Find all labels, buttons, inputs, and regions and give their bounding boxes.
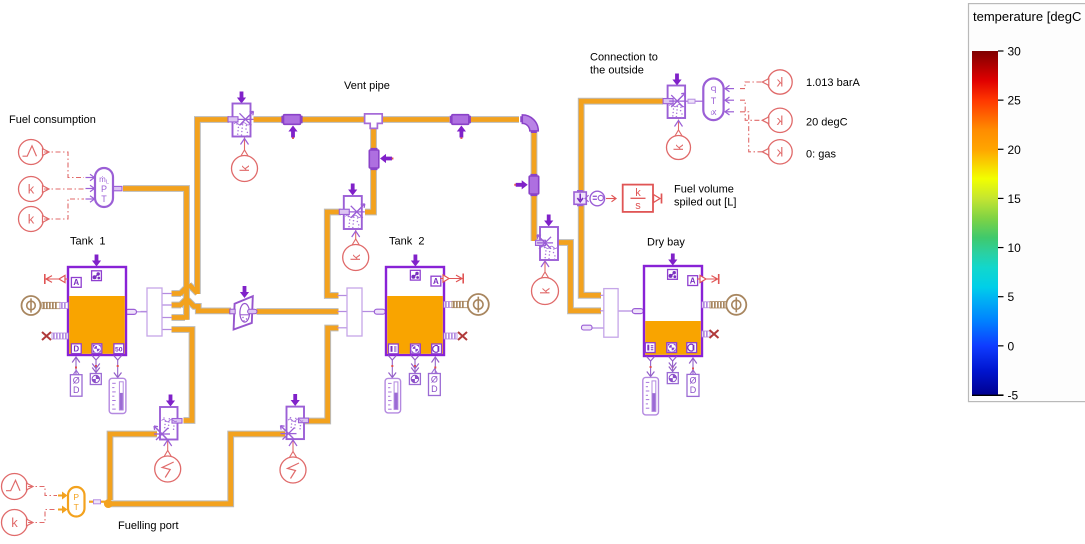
signal sensor under VV1: [232, 138, 258, 182]
wire pump to manifold M2: [257, 308, 339, 315]
wire outside valve V4 to spill sensor: [581, 101, 663, 192]
svg-text:A: A: [690, 276, 696, 285]
arrow into pipe P4: [514, 180, 527, 189]
tank DryBay level-gauge line: [689, 358, 697, 375]
tank Tank1 level-gauge line: [72, 357, 80, 375]
signal wire k4 to PTx: [740, 100, 767, 120]
thermometer tank DryBay: [643, 377, 659, 415]
signal source under V1: [155, 440, 181, 482]
pipe component P1: [282, 115, 302, 125]
tank Tank1 icon A: [71, 278, 81, 288]
manifold M1 stub lines: [141, 294, 173, 330]
manifold M2: [347, 288, 362, 336]
fuelling source PT: [68, 487, 85, 517]
ambient source PTx: [703, 79, 723, 121]
volume sensor tank Tank1: [90, 374, 101, 385]
wire valve V2 riser to manifold M2: [301, 328, 339, 421]
svg-text:D: D: [73, 385, 80, 395]
rotary sensor tank DryBay: [702, 295, 746, 315]
svg-text:5: 5: [1008, 290, 1015, 304]
wire pump feed branch: [187, 299, 231, 311]
blind plug on manifold M3: [582, 325, 593, 330]
tank DryBay thermometer line: [647, 357, 655, 378]
svg-text:T: T: [101, 194, 107, 204]
svg-text:D: D: [431, 384, 438, 394]
signal source under V2: [280, 440, 306, 483]
svg-text:Fuel volume: Fuel volume: [674, 184, 734, 196]
manifold M3 stub lines: [592, 295, 633, 328]
rotary sensor tank Tank1: [22, 296, 69, 315]
arrow into tank Tank1: [92, 255, 101, 267]
arrow into valve V2: [291, 394, 300, 406]
svg-text:1.013 barA: 1.013 barA: [806, 77, 860, 89]
svg-text:P: P: [73, 492, 79, 502]
svg-text:Ø: Ø: [73, 376, 80, 386]
vent valve V3: [536, 227, 559, 260]
tank DryBay icon cd: [687, 343, 697, 353]
wire valve V1 to fuelling node: [110, 434, 157, 500]
wire elbow drop: [531, 131, 538, 176]
fuel valve V2: [281, 407, 309, 440]
svg-text:P: P: [710, 85, 716, 95]
svg-text:the outside: the outside: [590, 65, 644, 77]
svg-text:Ø: Ø: [689, 375, 696, 385]
thermometer tank Tank1: [109, 378, 126, 413]
svg-text:k: k: [776, 144, 783, 159]
svg-text:D: D: [73, 344, 79, 353]
svg-text:P: P: [101, 184, 107, 194]
arrow into mPT top: [86, 174, 95, 180]
arrow into pump: [240, 286, 249, 298]
fuel valve V1: [154, 407, 182, 440]
svg-text:25: 25: [1008, 94, 1022, 108]
arrow into PTx top: [725, 85, 734, 91]
wire V4 to ambient source: [685, 100, 704, 102]
plugged port tank Tank1: [42, 332, 68, 340]
svg-text:k: k: [776, 113, 783, 128]
tank Tank1 pie-sensor line: [92, 356, 100, 374]
arrow into valve V1: [166, 395, 175, 407]
wire pipe run P1 to tee: [301, 116, 364, 123]
manifold M3: [604, 289, 618, 338]
signal constant k3: [762, 70, 792, 94]
tank T2 inlet port: [374, 309, 385, 314]
arrow into fuelling PT bottom: [58, 506, 68, 514]
tank Tank2 level-gauge line: [432, 357, 440, 374]
manifold M1: [147, 288, 162, 336]
svg-text:Fuel consumption: Fuel consumption: [9, 114, 96, 126]
signal wire k1 to mPT: [44, 188, 84, 190]
svg-text:Dry bay: Dry bay: [647, 237, 685, 249]
integrator k/s: [623, 185, 653, 212]
tank Tank1: [68, 267, 126, 355]
spill flow sensor: [574, 191, 586, 206]
signal ramp source: [19, 140, 50, 165]
volume sensor tank Tank2: [409, 374, 420, 385]
tank DryBay icon A: [688, 276, 698, 286]
wire vent valve VV1 to pipe run P1: [254, 116, 284, 123]
signal constant k2: [19, 207, 50, 232]
svg-text:k: k: [776, 75, 783, 90]
signal wire k6 to fuelling PT: [28, 510, 57, 523]
svg-text:30: 30: [1008, 45, 1022, 59]
svg-text:k: k: [538, 287, 553, 294]
svg-text:k: k: [28, 212, 35, 227]
pipe junction casings: [123, 120, 231, 320]
svg-text:k: k: [11, 515, 18, 530]
wire valve V5 drop to manifold M2: [327, 212, 341, 296]
arrow into valve V5: [348, 184, 357, 196]
tank DryBay icon bars: [645, 343, 655, 353]
tank T1 outlet port: [126, 309, 137, 314]
svg-text:20: 20: [1008, 143, 1022, 157]
vertical pipe component P4: [529, 175, 539, 196]
signal output tank Tank2: [440, 274, 463, 284]
signal wire ramp to mPT: [44, 152, 84, 178]
pipe component P2: [451, 115, 471, 125]
signal wire ramp to fuelling PT: [28, 487, 57, 496]
svg-text:spiled out [L]: spiled out [L]: [674, 197, 736, 209]
tank DryBay: [644, 266, 702, 356]
svg-text:k: k: [671, 144, 686, 151]
fuelling ramp source: [2, 474, 34, 500]
tank DryBay icon image: [668, 270, 678, 280]
outside valve V4: [663, 86, 685, 119]
wire spill sensor to manifold M3: [581, 204, 601, 295]
wire junction stub2: [172, 303, 182, 308]
arrow into vent valve VV1: [237, 92, 246, 104]
fuelling constant k6: [2, 510, 34, 536]
arrow into valve V4: [672, 74, 681, 86]
arrow into mPT bottom: [86, 196, 95, 202]
arrow into pipe P2: [457, 126, 466, 139]
thermometer tank Tank2: [385, 378, 401, 413]
signal sensor under V5: [343, 230, 369, 271]
tank Tank2 icon A: [431, 276, 441, 286]
svg-text:k: k: [237, 165, 252, 172]
svg-text:k: k: [348, 254, 363, 261]
tank Tank1 icon pie: [92, 344, 102, 354]
wire fuelling node to valve V2: [111, 434, 285, 504]
vertical pipe component P3: [369, 149, 379, 170]
tank Tank2 thermometer line: [388, 356, 396, 379]
arrow into pipe P1: [288, 126, 297, 139]
level gauge tank Tank1: [70, 370, 82, 396]
node fuelling junction: [104, 499, 113, 508]
tank Tank2 icon image: [410, 270, 420, 280]
wire vertical run to valve V5: [365, 168, 374, 212]
tank Tank2 icon cd: [432, 344, 442, 354]
arrow into tank DryBay: [668, 254, 677, 266]
wire tee to pipe run P2: [383, 116, 450, 123]
arrow into tank Tank2: [411, 255, 420, 267]
wire junction stub1: [172, 291, 182, 296]
svg-text:Fuelling port: Fuelling port: [118, 520, 179, 532]
signal output tank Tank1: [45, 274, 68, 284]
svg-text:-5: -5: [1008, 388, 1019, 402]
svg-text:A: A: [433, 277, 439, 286]
svg-text:temperature [degC: temperature [degC: [973, 9, 1081, 24]
arrow into fuelling PT top: [58, 492, 68, 500]
svg-text:Vent pipe: Vent pipe: [344, 80, 390, 92]
tank Tank1 icon D: [71, 344, 81, 354]
svg-text:T: T: [74, 502, 79, 512]
svg-text:20 degC: 20 degC: [806, 117, 848, 129]
signal wire k2 to mPT: [44, 199, 84, 219]
tank Tank2: [386, 267, 444, 355]
tank DryBay pie-sensor line: [669, 357, 677, 373]
plugged port tank Tank2: [444, 332, 467, 340]
svg-text:50: 50: [115, 346, 123, 353]
svg-text:0: 0: [1008, 339, 1015, 353]
jet pump: [230, 296, 257, 329]
wire tee drop: [370, 127, 377, 150]
signal output tank DryBay: [697, 274, 719, 284]
level gauge tank DryBay: [687, 370, 699, 397]
signal wire k5 to PTx: [740, 112, 767, 152]
arrow into pipe P3: [380, 154, 393, 163]
dry bay inlet port: [632, 309, 643, 314]
svg-text:k: k: [635, 187, 641, 199]
tank DryBay icon pie: [667, 343, 677, 353]
wire vent pipe left vertical: [197, 120, 229, 295]
rotary sensor tank Tank2: [444, 294, 489, 315]
signal sensor under V4: [667, 120, 691, 160]
svg-text:15: 15: [1008, 192, 1022, 206]
signal constant k4: [762, 108, 792, 132]
connector V4-ambient tick: [688, 99, 695, 103]
arrow into PTx mid: [725, 97, 734, 103]
arrow into valve V3: [544, 215, 553, 227]
vent valve VV1: [228, 104, 253, 137]
svg-text:s: s: [635, 200, 641, 212]
manifold M2 stub lines: [338, 296, 376, 328]
wire junction stub3: [172, 315, 186, 320]
arrow into PTx bottom: [725, 109, 734, 115]
tank Tank1 icon 50: [114, 344, 124, 354]
tank Tank2 icon bars: [389, 344, 399, 354]
svg-text:k: k: [28, 182, 35, 197]
signal constant k5: [762, 140, 792, 164]
signal wire k3 to PTx: [740, 82, 767, 89]
wire vent merge diagonal: [189, 285, 198, 294]
temperature legend panel: [969, 4, 1085, 403]
plugged port tank DryBay: [702, 330, 719, 338]
wire junction stub4 to valve V1: [172, 330, 193, 421]
tank Tank1 icon image: [92, 271, 102, 281]
wire vertical run to valve V3: [531, 194, 538, 242]
svg-text:10: 10: [1008, 241, 1022, 255]
volume sensor tank DryBay: [667, 373, 678, 384]
wire junction stub1 diagonal: [180, 288, 187, 295]
svg-text:T: T: [711, 96, 717, 106]
svg-text:Connection to: Connection to: [590, 52, 658, 64]
signal sensor under V3: [532, 260, 559, 305]
tee junction: [365, 114, 383, 128]
tank Tank2 icon pie: [411, 344, 421, 354]
wire fuelling port link: [89, 501, 105, 503]
svg-text:Ø: Ø: [431, 375, 438, 385]
arrow into mPT mid: [86, 185, 95, 191]
svg-text:A: A: [73, 278, 79, 287]
tank Tank1 thermometer line: [114, 356, 122, 379]
flow source mPT: [95, 168, 122, 207]
wire vent riser from fuel-consumption source: [123, 189, 187, 320]
vent elbow: [521, 115, 538, 132]
signal constant k1: [19, 177, 50, 202]
wire pipe run P2 to elbow: [470, 116, 520, 123]
svg-text:Tank 2: Tank 2: [389, 236, 424, 248]
tank vent valve V5: [339, 196, 364, 229]
wire junction stub2 diagonal: [180, 299, 187, 306]
svg-text:Tank 1: Tank 1: [70, 236, 105, 248]
wire valve V3 to manifold M3: [557, 243, 602, 311]
equals-o converter: [585, 191, 605, 206]
connector fuelling link tick: [94, 500, 101, 504]
svg-text:0: gas: 0: gas: [806, 149, 836, 161]
signal arrow to integrator: [606, 195, 616, 202]
svg-text:xₗ: xₗ: [710, 107, 717, 117]
tank Tank2 pie-sensor line: [411, 356, 419, 374]
level gauge tank Tank2: [429, 369, 441, 396]
svg-text:D: D: [690, 385, 697, 395]
tank T1 outlet line: [136, 311, 147, 313]
integrator output port: [654, 194, 662, 204]
